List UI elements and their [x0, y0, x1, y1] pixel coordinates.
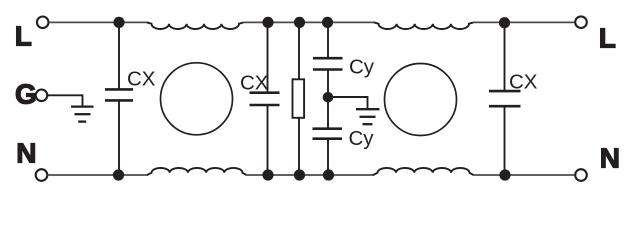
wire midpoint to ground — [328, 97, 368, 109]
capacitor CX2 branch wire (bottom) — [267, 105, 269, 175]
terminal G left (open circle) — [36, 90, 48, 102]
capacitor CX3 branch wire (bottom) — [504, 106, 506, 175]
wire top rail: terminal L to node 1 — [49, 21, 148, 23]
node bottom 5 (junction dot) — [499, 169, 510, 180]
node top 1 (junction dot) — [113, 17, 124, 28]
svg-text:CX: CX — [509, 71, 538, 94]
node bottom 2 (junction dot) — [262, 169, 273, 180]
capacitor CX3 branch wire (top) — [504, 22, 506, 91]
node top 2 (junction dot) — [262, 17, 273, 28]
capacitor CX1 — [105, 89, 133, 100]
node bottom 3 (junction dot) — [294, 169, 305, 180]
svg-text:Cy: Cy — [349, 55, 375, 78]
ground (left, protective earth) — [71, 107, 94, 122]
svg-text:CX: CX — [127, 68, 156, 91]
terminal L left (open circle) — [37, 17, 49, 29]
terminal L right (open circle) — [575, 16, 587, 28]
node top 3 (junction dot) — [294, 17, 305, 28]
inductor L2 (bottom left winding) — [147, 168, 247, 175]
wire bottom rail: winding to terminal N right — [474, 174, 575, 176]
wire top rail: winding to terminal L right — [473, 21, 575, 23]
capacitor Cy1 — [313, 58, 343, 69]
node Cy midpoint (junction dot) — [323, 92, 334, 103]
wire G terminal to ground — [48, 95, 83, 106]
terminal N right (open circle) — [575, 169, 587, 181]
svg-text:N: N — [16, 138, 36, 169]
capacitor CX3 — [489, 91, 521, 106]
wire top rail: winding to node 2 — [243, 21, 376, 23]
capacitor CX1 branch wire (bottom) — [118, 101, 120, 175]
capacitor Cy2 branch wire (bottom) — [327, 139, 329, 175]
resistor R1 branch wire (bottom) — [298, 118, 300, 175]
capacitor Cy1 branch wire (top) — [327, 22, 329, 58]
terminal N left (open circle) — [36, 169, 48, 181]
svg-text:Cy: Cy — [349, 127, 375, 150]
wire bottom rail: winding to winding — [246, 174, 375, 176]
inductor L4 (bottom right winding) — [373, 168, 474, 175]
capacitor CX1 branch wire (top) — [118, 22, 120, 89]
wire bottom rail: terminal N to winding — [48, 174, 149, 176]
capacitor CX2 — [250, 93, 280, 105]
node top 5 (junction dot) — [499, 17, 510, 28]
node bottom 1 (junction dot) — [113, 169, 124, 180]
inductor L3 (top right winding) — [374, 22, 474, 29]
node bottom 4 (junction dot) — [323, 169, 334, 180]
svg-text:CX: CX — [240, 71, 269, 94]
svg-text:L: L — [599, 23, 616, 54]
resistor R1 — [293, 79, 305, 118]
inductor L1 (top left winding) — [147, 22, 244, 29]
choke core left (circle) — [161, 63, 233, 135]
ground (middle) — [356, 109, 380, 124]
resistor R1 branch wire (top) — [298, 22, 300, 79]
node top 4 (junction dot) — [322, 17, 333, 28]
capacitor Cy2 — [313, 129, 343, 139]
svg-text:G: G — [15, 79, 37, 110]
svg-text:N: N — [600, 143, 620, 174]
wire Cy midpoint — [327, 70, 329, 129]
capacitor CX2 branch wire (top) — [267, 22, 269, 92]
svg-text:L: L — [15, 21, 32, 52]
choke core right (circle) — [385, 64, 457, 136]
